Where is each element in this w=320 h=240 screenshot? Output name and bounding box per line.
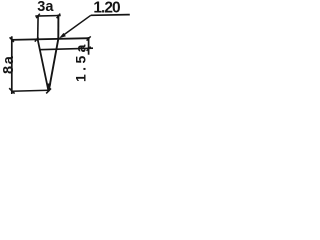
tick top end of 1.5a dimension	[87, 36, 91, 40]
leader arrowhead	[59, 33, 66, 38]
tip tick	[46, 84, 51, 93]
underline of note 1.20	[91, 14, 130, 17]
dimension line 1.5a (vertical, right)	[88, 37, 90, 55]
extension line left (3a)	[37, 15, 39, 39]
tick left end of 3a dimension	[36, 14, 40, 18]
svg-text:1.20: 1.20	[93, 0, 120, 16]
svg-text:1.5a: 1.5a	[72, 41, 88, 82]
svg-text:3a: 3a	[37, 0, 54, 15]
extension line right (3a)	[57, 15, 59, 39]
triangle left edge	[38, 40, 49, 91]
surface line (top edge)	[11, 38, 89, 40]
tick bottom end of 8a dimension	[9, 88, 14, 93]
corner tick at triangle top-left	[35, 37, 39, 41]
tick right end of 3a dimension	[57, 14, 61, 19]
svg-text:8a: 8a	[1, 55, 17, 74]
bottom extension of 8a dimension	[12, 90, 49, 91]
tick top end of 8a dimension	[10, 37, 14, 42]
triangle right edge	[49, 39, 59, 91]
leader line from 1.20	[62, 15, 91, 36]
dimension line 8a (vertical, left)	[11, 36, 13, 94]
dimension line 3a	[35, 15, 60, 18]
chord line at 1.5a depth	[39, 48, 93, 50]
tick bottom end of 1.5a dimension	[87, 47, 91, 51]
